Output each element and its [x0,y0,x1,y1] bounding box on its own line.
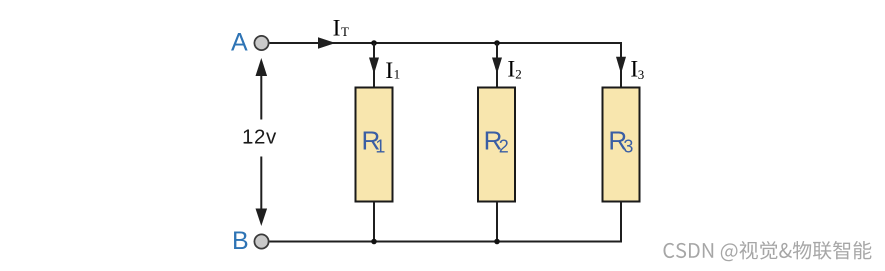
terminal B [254,234,268,248]
current arrow I3 on R3 drop wire [616,57,626,74]
svg-text:1: 1 [394,67,401,82]
terminal A [254,36,268,50]
wire from top rail into R1 [373,43,375,87]
svg-text:2: 2 [515,66,522,81]
wire R2 bottom to rail [496,202,498,242]
voltage arrow shaft lower segment [260,157,262,211]
voltage arrowhead down at node B [256,209,268,227]
svg-text:3: 3 [623,136,633,156]
junction bottom of R1 [371,239,377,245]
svg-text:2: 2 [499,136,509,156]
watermark CSDN @视觉&物联智能 [665,242,873,262]
current arrow I2 [492,58,502,74]
svg-text:I: I [333,16,341,42]
resistor R2 body [478,88,515,202]
svg-text:3: 3 [638,67,645,82]
wire from top rail into R2 [496,43,498,87]
resistor R3 body [603,88,640,202]
svg-text:1: 1 [375,136,385,156]
svg-text:T: T [341,24,349,39]
svg-text:I: I [507,57,515,83]
svg-text:I: I [385,58,393,84]
voltage arrow shaft upper segment [260,74,262,120]
resistor R1 body [356,88,393,202]
svg-text:A: A [231,29,248,57]
junction top of R2 [494,40,500,46]
wire top rail from A to corner above R3 [270,43,622,87]
wire R1 bottom to rail [373,202,375,242]
wire bottom rail from B to below R3 [270,202,622,242]
junction top of R1 [371,40,377,46]
svg-text:B: B [232,227,249,255]
svg-text:12v: 12v [242,126,277,149]
voltage arrowhead up at node A [256,58,268,76]
junction bottom of R2 [494,239,500,245]
current arrow IT on top rail [318,37,336,48]
current arrow I1 [369,58,379,75]
